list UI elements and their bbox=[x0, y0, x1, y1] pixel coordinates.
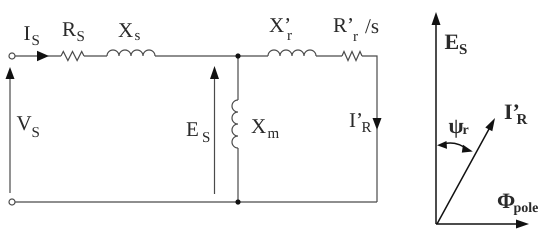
svg-text:r: r bbox=[287, 28, 292, 44]
svg-text:S: S bbox=[202, 130, 210, 146]
phasor axis ES vertical bbox=[432, 12, 441, 224]
svg-text:S: S bbox=[32, 125, 40, 141]
label IR bbox=[349, 108, 372, 136]
resistor RS bbox=[61, 52, 84, 61]
label Rr/s bbox=[333, 13, 379, 45]
wire RS-to-Xs bbox=[84, 55, 107, 57]
wire bottom bbox=[15, 201, 377, 203]
svg-text:s: s bbox=[135, 28, 141, 44]
arrowhead ES bbox=[210, 66, 219, 79]
svg-text:r: r bbox=[353, 29, 358, 45]
wire Xr-to-Rr bbox=[316, 55, 342, 57]
svg-text:m: m bbox=[268, 126, 280, 142]
wire Xs-to-node bbox=[155, 55, 268, 57]
node top junction bbox=[235, 53, 240, 58]
label Xm bbox=[251, 114, 280, 142]
arrowhead VS bbox=[6, 67, 15, 79]
inductor Xs bbox=[107, 50, 155, 56]
svg-text:S: S bbox=[77, 29, 85, 45]
arrowhead IS bbox=[37, 51, 49, 61]
arrow line VS bbox=[9, 75, 11, 193]
terminal top-left bbox=[9, 53, 15, 59]
label phi-pole bbox=[497, 188, 538, 216]
inductor Xr bbox=[268, 50, 316, 56]
wire Xm branch lower bbox=[237, 148, 239, 202]
label RS bbox=[62, 17, 85, 45]
terminal bottom-left bbox=[9, 199, 15, 205]
label IS bbox=[24, 21, 40, 49]
label psi-r bbox=[449, 113, 469, 138]
angle arc psi bbox=[437, 141, 473, 153]
svg-text:X: X bbox=[251, 114, 266, 138]
svg-text:I: I bbox=[24, 21, 31, 45]
svg-text:R’: R’ bbox=[333, 13, 354, 37]
inductor Xm bbox=[232, 100, 238, 148]
label ES bbox=[186, 117, 210, 146]
svg-text:Φ: Φ bbox=[497, 188, 515, 213]
svg-text:E: E bbox=[445, 29, 460, 54]
label Xr bbox=[269, 13, 292, 44]
svg-text:R: R bbox=[362, 120, 372, 136]
svg-text:S: S bbox=[459, 42, 467, 58]
svg-text:X: X bbox=[118, 18, 133, 42]
label IR phasor bbox=[504, 99, 528, 128]
svg-text:S: S bbox=[32, 33, 40, 49]
node bottom junction bbox=[235, 199, 240, 204]
label VS bbox=[17, 111, 40, 141]
phasor axis phi horizontal bbox=[436, 220, 529, 229]
phasor vector IR bbox=[437, 118, 495, 224]
svg-text:R: R bbox=[62, 17, 76, 41]
wire top-left bbox=[15, 55, 61, 57]
svg-text:R: R bbox=[517, 112, 528, 128]
wire Xm branch upper bbox=[237, 56, 239, 100]
svg-text:r: r bbox=[463, 123, 469, 138]
wire top-right corner bbox=[362, 56, 377, 202]
resistor Rr/s bbox=[342, 52, 362, 61]
label Xs bbox=[118, 18, 141, 44]
label ES phasor bbox=[445, 29, 468, 58]
arrow line ES bbox=[214, 75, 216, 194]
svg-text:E: E bbox=[186, 117, 199, 141]
svg-text:ψ: ψ bbox=[449, 113, 464, 138]
arrowhead IR-down bbox=[373, 118, 382, 130]
svg-text:V: V bbox=[17, 111, 32, 135]
svg-text:pole: pole bbox=[514, 201, 539, 216]
svg-text:/s: /s bbox=[365, 14, 379, 38]
